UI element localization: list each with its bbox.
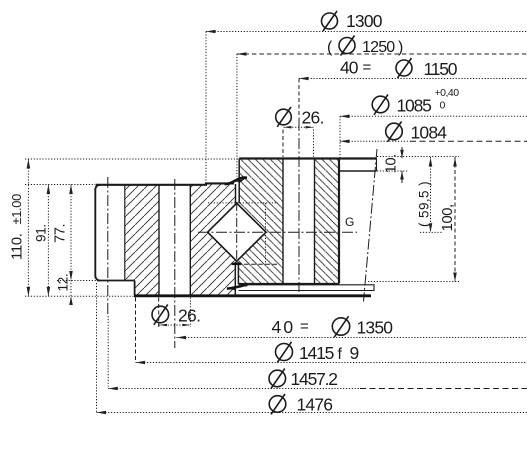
ext top hole left edge bbox=[282, 130, 284, 158]
arrows 10 bbox=[400, 150, 404, 159]
dim line Ø1300 bbox=[206, 31, 527, 33]
svg-text:1415: 1415 bbox=[299, 343, 334, 363]
roller envelope right dotted bbox=[265, 203, 267, 265]
dim line 10 bbox=[401, 147, 403, 158]
svg-text:40: 40 bbox=[340, 58, 359, 78]
right bolt hole centerline bbox=[298, 120, 300, 292]
svg-text:26.: 26. bbox=[178, 306, 200, 326]
svg-text:+0,40: +0,40 bbox=[435, 87, 460, 99]
Ø symbol 1084 bbox=[386, 123, 403, 140]
svg-text:12.: 12. bbox=[56, 274, 71, 292]
arrow Ø1415 bbox=[136, 361, 146, 365]
svg-text:=: = bbox=[363, 59, 372, 76]
seal retainer plate bbox=[239, 285, 375, 291]
right ring left edge below roller bbox=[237, 262, 239, 284]
gear flange (tooth zone, unhatched) bbox=[95, 185, 100, 281]
arrow Ø1350 bbox=[177, 336, 187, 340]
dim line Ø1457.2 bbox=[108, 388, 360, 390]
gear root line bbox=[124, 185, 126, 281]
roller horizontal centerline bbox=[198, 231, 357, 233]
arrow Ø1085 bbox=[340, 115, 350, 119]
svg-text:): ) bbox=[398, 39, 403, 56]
svg-text:1150: 1150 bbox=[424, 59, 458, 79]
Ø symbol 1085 bbox=[372, 96, 389, 113]
left bolt hole centerline bbox=[174, 179, 176, 348]
ext lip top right bbox=[377, 156, 459, 158]
step edge bbox=[134, 281, 136, 296]
ext left ring top bbox=[25, 184, 95, 186]
ext Ø1085/1084 bbox=[339, 116, 341, 157]
ext Ø1150 upper bbox=[298, 79, 300, 121]
svg-text:9: 9 bbox=[350, 343, 360, 363]
Ø symbol 1476 bbox=[269, 396, 286, 413]
right ring right edge bbox=[338, 159, 340, 284]
lip right edge bbox=[376, 159, 378, 172]
arrows Ø26 top bbox=[284, 126, 292, 129]
roller (diamond) bbox=[208, 203, 266, 261]
seam left ring lower bbox=[234, 262, 236, 295]
dim line Ø1250 bbox=[237, 53, 527, 55]
Ø symbol 1250 bbox=[339, 38, 355, 54]
Ø symbol 1150 bbox=[396, 60, 412, 76]
right ring bottom edge bbox=[239, 283, 340, 285]
dim line Ø26 bottom bbox=[159, 324, 190, 326]
ext top surface right ring (long left) bbox=[25, 158, 238, 160]
left ring top edge bbox=[96, 183, 235, 184]
dim line Ø1085 bbox=[340, 115, 527, 117]
arrows 59.5 bbox=[429, 158, 433, 167]
dim line Ø1150 bbox=[299, 78, 527, 80]
ext bottom hole edges bbox=[158, 298, 160, 328]
svg-text:77.: 77. bbox=[53, 224, 69, 243]
Ø symbol 26 top bbox=[276, 109, 292, 125]
roller envelope top dotted bbox=[208, 202, 278, 204]
ext Ø1415 bbox=[135, 298, 137, 363]
svg-text:110.: 110. bbox=[9, 234, 26, 260]
ext flange bottom bbox=[57, 280, 97, 282]
dim line Ø26 top bbox=[284, 126, 314, 128]
arrows 91 bbox=[47, 185, 51, 195]
dim line Ø1476 bbox=[97, 412, 527, 414]
arrow Ø1476 bbox=[97, 411, 107, 415]
right ring top edge bbox=[239, 157, 376, 159]
bottom seal lip bbox=[227, 285, 248, 289]
ext Ø1250 / roller axis bbox=[236, 54, 238, 177]
right ring hatched section bbox=[238, 159, 339, 284]
svg-text:1300: 1300 bbox=[346, 11, 383, 31]
arrow Ø1150 bbox=[299, 77, 309, 81]
roller envelope bottom dashed bbox=[237, 263, 279, 265]
ext top hole right edge bbox=[313, 130, 315, 158]
arrows 110 bbox=[27, 159, 31, 169]
ext Ø1300 bbox=[205, 32, 207, 184]
Ø symbol 1350 bbox=[332, 318, 349, 335]
Ø symbol 26 bottom bbox=[152, 306, 169, 323]
svg-text:1250: 1250 bbox=[362, 39, 395, 56]
svg-text:1085: 1085 bbox=[397, 96, 432, 116]
gear pitch centerline bbox=[107, 177, 109, 316]
dim line 110 bbox=[27, 159, 29, 296]
roller vertical centerline bbox=[236, 202, 238, 263]
svg-text:40: 40 bbox=[272, 317, 296, 337]
svg-text:10.: 10. bbox=[383, 154, 400, 173]
svg-text:G: G bbox=[345, 215, 354, 229]
svg-text:±1.00: ±1.00 bbox=[9, 194, 24, 225]
arrow Ø1250 bbox=[237, 52, 247, 56]
svg-text:26.: 26. bbox=[302, 108, 324, 128]
seam left ring upper bbox=[235, 184, 237, 203]
arrows 100 bbox=[453, 158, 457, 167]
dim line Ø1415 bbox=[136, 362, 527, 364]
svg-text:91.: 91. bbox=[34, 224, 49, 242]
arrow Ø1300 bbox=[206, 30, 216, 34]
ext Ø1457.2 bbox=[107, 316, 109, 389]
lip bottom edge bbox=[339, 170, 377, 172]
arrows Ø26 bottom bbox=[159, 324, 167, 327]
arrow Ø1457.2 bbox=[108, 387, 118, 391]
gear taper pitch line (slanted) bbox=[364, 149, 378, 302]
dim line Ø1350 bbox=[177, 337, 527, 339]
svg-text:0: 0 bbox=[440, 100, 446, 112]
ext Ø1476 bbox=[96, 283, 98, 413]
left ring bolt hole edges bbox=[158, 185, 160, 296]
arrows 77 bbox=[69, 185, 73, 195]
Ø symbol 1300 bbox=[152, 11, 412, 414]
ext 59.5 bottom bbox=[420, 231, 442, 233]
left ring bottom thick line bbox=[134, 294, 371, 297]
left ring hatched section bbox=[125, 185, 236, 296]
dim line Ø1084 bbox=[340, 140, 410, 142]
Ø symbol 1457.2 bbox=[269, 370, 286, 387]
dim line 59.5 bbox=[430, 157, 432, 232]
svg-text:100,: 100, bbox=[439, 204, 456, 231]
tick below roller bbox=[232, 263, 242, 265]
svg-text:( 59,5 ): ( 59,5 ) bbox=[417, 181, 432, 227]
ext 100 bottom bbox=[368, 281, 460, 283]
svg-text:=: = bbox=[300, 318, 309, 335]
top seal lip bbox=[225, 178, 248, 185]
flange bottom edge bbox=[97, 280, 135, 282]
ext left ring bottom bbox=[25, 295, 134, 297]
ext lip bottom right bbox=[377, 170, 408, 172]
arrow Ø1084 bbox=[340, 140, 350, 144]
svg-text:1084: 1084 bbox=[411, 123, 448, 143]
dim line 91 bbox=[47, 185, 49, 297]
svg-text:f: f bbox=[338, 346, 343, 363]
svg-text:1350: 1350 bbox=[357, 318, 394, 338]
svg-text:(: ( bbox=[327, 39, 333, 56]
svg-text:1457.2: 1457.2 bbox=[291, 369, 338, 389]
svg-text:1476: 1476 bbox=[297, 395, 333, 415]
Ø symbol 1415 bbox=[276, 344, 293, 361]
right ring bolt hole edges bbox=[282, 159, 284, 284]
right ring left edge above roller bbox=[238, 159, 240, 204]
arrow 12 bbox=[69, 296, 73, 305]
dim line 77 / 12 bbox=[70, 185, 72, 306]
dim line 100 bbox=[454, 157, 456, 282]
